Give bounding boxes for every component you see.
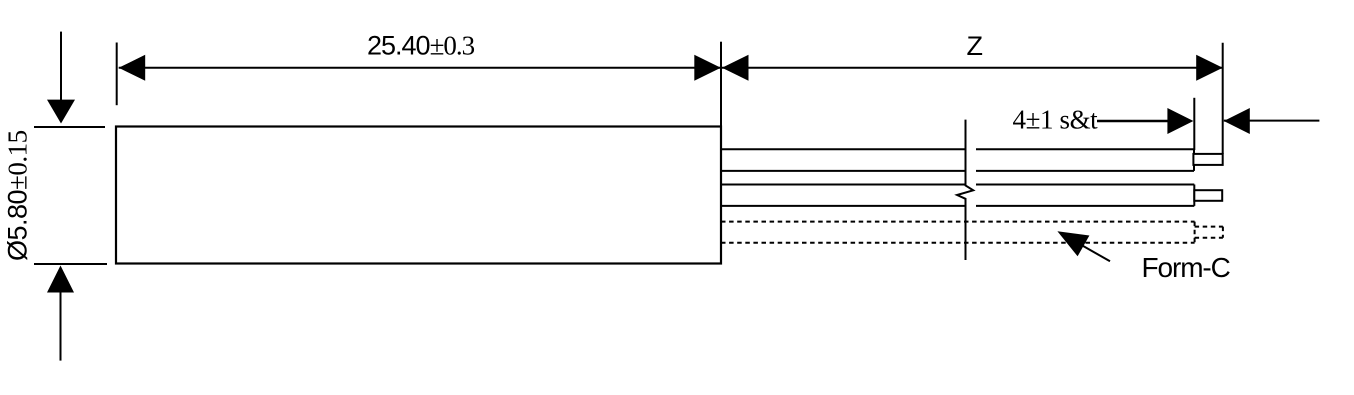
- lead 2 tip: [1194, 190, 1222, 201]
- strip-tin right-pointing arrowhead: [1167, 108, 1193, 134]
- lead 3 dashed right edge: [1194, 222, 1196, 243]
- diameter down arrow: [47, 32, 75, 124]
- lead 2 bottom edge (right of break): [976, 205, 1194, 207]
- strip-tin tail line: [1224, 120, 1320, 122]
- length right extension line (above body edge): [720, 42, 722, 127]
- lead 2 right edge: [1193, 185, 1195, 206]
- lead 1 tip: [1193, 154, 1222, 165]
- svg-text:25.40±0.3: 25.40±0.3: [367, 30, 475, 60]
- svg-text:4±1 s&t: 4±1 s&t: [1013, 105, 1099, 135]
- lead 1 top edge (right of break): [976, 148, 1194, 150]
- length left arrowhead: [119, 55, 146, 81]
- Z dimension line: [722, 67, 1223, 69]
- lead 3 dashed top edge: [721, 221, 1195, 223]
- strip-tin leader line: [1097, 120, 1170, 122]
- lead 1 top edge (left of break): [722, 148, 965, 150]
- diameter bottom tick: [34, 263, 107, 265]
- Z right extension line: [1222, 43, 1224, 154]
- length left extension line: [116, 43, 118, 106]
- length dimension line 25.40: [119, 67, 721, 69]
- lead 3 dashed bottom edge: [721, 242, 1195, 244]
- sensor body outline: [116, 127, 721, 264]
- lead 1 bottom edge (left of break): [722, 170, 965, 172]
- lead 2 top edge (right of break): [976, 184, 1194, 186]
- Z right arrowhead: [1196, 55, 1223, 81]
- lead 1 bottom edge (right of break): [976, 170, 1194, 172]
- svg-text:Form-C: Form-C: [1142, 252, 1231, 283]
- diameter top tick: [34, 126, 105, 128]
- lead 1 right edge: [1193, 149, 1195, 171]
- lead 2 top edge (left of break): [722, 184, 965, 186]
- svg-text:Ø5.80±0.15: Ø5.80±0.15: [3, 130, 33, 261]
- Form-C callout arrowhead: [1057, 231, 1089, 256]
- lead 3 dashed left edge: [720, 222, 722, 243]
- diameter up arrow: [47, 266, 74, 361]
- svg-text:Z: Z: [967, 31, 984, 61]
- Z left arrowhead: [722, 55, 749, 81]
- strip-tin extension line: [1193, 98, 1195, 150]
- length right arrowhead: [694, 55, 721, 81]
- strip-tin left-pointing arrowhead: [1224, 108, 1250, 134]
- Form-C callout leader line: [1070, 239, 1110, 262]
- break line with zigzag: [957, 120, 973, 260]
- lead 2 bottom edge (left of break): [722, 205, 965, 207]
- lead 3 dashed tip: [1195, 227, 1223, 238]
